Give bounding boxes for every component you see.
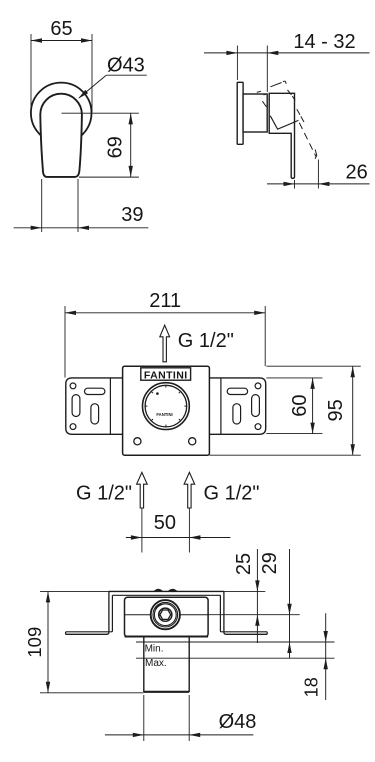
svg-text:95: 95 (325, 399, 347, 421)
dim Ø48 extension lines (143, 695, 145, 741)
right wing fold outer (224, 591, 267, 634)
svg-text:G 1/2": G 1/2" (76, 482, 132, 504)
plate screw hole right (189, 438, 196, 445)
dim 14-32 line (204, 52, 370, 54)
central plate (123, 366, 210, 455)
handle body (40, 94, 82, 177)
right wing fold inner (220, 595, 267, 632)
bracket plate bottom edge (112, 594, 220, 596)
screw tip bumps (154, 589, 162, 591)
dim 50 extension lines (141, 508, 143, 553)
left bracket (66, 378, 123, 434)
dim 39 extension lines (41, 179, 43, 232)
body block bottom heavy edge (125, 636, 209, 638)
bottom reference line (109 extension) (40, 692, 144, 694)
svg-text:18: 18 (302, 677, 322, 697)
dim 50 line (126, 537, 231, 539)
svg-text:26: 26 (345, 162, 367, 184)
svg-text:109: 109 (24, 627, 45, 658)
G 1/2 bottom-left arrow (137, 472, 148, 508)
center reference line (62, 112, 139, 114)
left wing fold outer (66, 591, 109, 634)
Max reference line (136, 657, 335, 659)
dim 65 extension lines (30, 34, 32, 112)
mixer body (243, 94, 267, 132)
svg-text:14 - 32: 14 - 32 (293, 31, 355, 53)
svg-text:65: 65 (50, 18, 72, 40)
cartridge tick marks (145, 386, 186, 427)
G 1/2 top arrow (160, 325, 170, 362)
G 1/2 bottom-right arrow (184, 472, 195, 508)
dim 60 line (312, 378, 314, 434)
escutcheon circle (31, 83, 92, 144)
wall plate (237, 82, 243, 144)
dim 26 line (267, 183, 370, 185)
dim 18 line (325, 613, 327, 700)
Min reference line (136, 641, 335, 643)
screw outer circle (151, 600, 180, 629)
dim 25 line (256, 549, 258, 643)
cylinder bottom heavy edge (144, 691, 189, 693)
dim Ø48 line (105, 734, 254, 736)
top reference line (109/25 extension) (40, 590, 265, 592)
dim 69 line (130, 113, 132, 177)
screw ring outer (153, 602, 178, 627)
right bracket fold line (220, 378, 222, 434)
cylinder left edge (143, 637, 145, 693)
svg-text:29: 29 (259, 552, 281, 574)
dim 211 line (65, 312, 265, 314)
svg-text:60: 60 (289, 394, 311, 416)
dim 26 extension lines (294, 180, 296, 189)
body block mid line (125, 614, 209, 616)
svg-text:69: 69 (105, 136, 127, 158)
screw ring inner (154, 604, 176, 626)
right bracket vertical slot 2 (233, 404, 241, 424)
right bracket hole bottom (255, 424, 261, 430)
dim 39 line (14, 227, 149, 229)
FANTINI logo box (141, 368, 191, 380)
mid line extension (25/29 reference) (208, 614, 300, 616)
left bracket vertical slot 2 (91, 404, 99, 424)
dim 95 extension lines (266, 365, 361, 367)
left bracket vertical slot 1 (72, 395, 80, 417)
right bracket horizontal slot (227, 388, 247, 394)
left wing lip end cap (65, 632, 67, 635)
left bracket fold line (109, 378, 111, 434)
cartridge dot (156, 392, 159, 395)
svg-text:G 1/2": G 1/2" (178, 330, 234, 352)
dim 14-32 extension lines (236, 46, 238, 81)
dim 29 line (289, 549, 291, 658)
svg-text:Ø43: Ø43 (107, 54, 145, 76)
body block (125, 597, 209, 636)
screw knurl mark (155, 604, 161, 609)
right bracket (209, 378, 266, 434)
cartridge circle outer (143, 383, 190, 430)
cartridge circle inner (145, 385, 187, 427)
screw hex socket (160, 610, 171, 619)
dim 60 extension lines (266, 377, 322, 379)
dashed alternate handle positions (257, 81, 317, 159)
svg-text:39: 39 (121, 204, 143, 226)
svg-text:FANTINI: FANTINI (144, 370, 188, 382)
left bracket hole bottom (70, 424, 76, 430)
screw inner circle (159, 608, 172, 621)
cylinder right edge (188, 637, 190, 693)
handle bottom reference line (79, 176, 139, 178)
handle base and lever (269, 93, 294, 178)
dim 211 extension lines (64, 306, 66, 378)
dim 65 line (31, 40, 92, 42)
svg-text:FANTINI: FANTINI (156, 412, 172, 417)
dim 109 line (47, 591, 49, 692)
bracket plate top edge (109, 590, 224, 592)
dim Ø43 leader (106, 74, 147, 76)
svg-text:Max.: Max. (145, 658, 167, 669)
left bracket hole top (70, 383, 76, 389)
right wing lip end cap (266, 632, 268, 635)
plate screw hole left (134, 438, 141, 445)
right bracket vertical slot 1 (252, 395, 260, 417)
left wing fold inner (66, 595, 113, 632)
svg-text:Ø48: Ø48 (219, 711, 257, 733)
svg-text:211: 211 (149, 290, 181, 312)
svg-text:50: 50 (154, 512, 176, 534)
left bracket horizontal slot (85, 388, 105, 394)
right bracket hole top (255, 383, 261, 389)
dim 95 line (352, 366, 354, 455)
svg-text:25: 25 (233, 553, 255, 575)
svg-text:G 1/2": G 1/2" (204, 482, 260, 504)
svg-text:Min.: Min. (145, 643, 164, 654)
